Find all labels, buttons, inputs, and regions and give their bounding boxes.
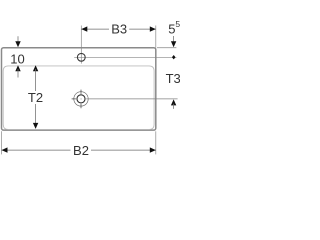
tap hole c2 inner circle [77,95,85,103]
10 up arrow [15,65,20,71]
B2 left arrow [2,147,8,152]
tap hole crosshair ticks [80,90,82,94]
centerline through small hole to right (5.5 / T3 upper anchor) [74,56,176,58]
dimension 10 down arrow [17,36,19,43]
dimension 5.5 arrow [173,36,175,44]
B2 extension line left [1,131,3,154]
svg-text:B2: B2 [73,143,89,158]
svg-text:10: 10 [10,51,24,66]
B3 left arrow [81,26,87,31]
tap hole center mark [80,98,83,101]
washbasin bowl contour [3,66,154,129]
washbasin outer rim [2,48,156,130]
dimension T2 line [33,65,38,71]
B2 right arrow [150,147,156,152]
svg-text:B3: B3 [111,22,127,37]
dimension B2 line [2,149,71,151]
vertical extension line from B3 left down through small hole [80,26,82,64]
dimension B3 line [81,28,109,30]
5.5 diamond marker [172,55,176,59]
vertical extension line from B3 right [155,26,157,48]
B3 right arrow [150,26,156,31]
B2 extension line right [155,131,157,154]
svg-text:T2: T2 [28,90,43,105]
tap hole c2 outer circle [74,92,88,106]
extension of rim top edge to the right (5.5 upper anchor) [157,47,176,49]
small hole c1 [77,53,85,61]
T3 up arrow below lower anchor line [171,99,176,105]
svg-text:T3: T3 [166,71,180,86]
centerline from tap hole to right (T3 lower anchor) [86,98,177,100]
